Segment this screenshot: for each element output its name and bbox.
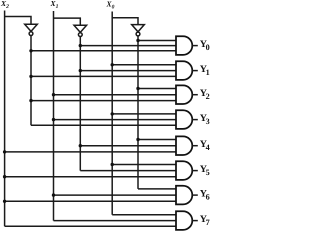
wire Y5 top input from X0 [112,164,176,166]
junction X0 to Y1 top [111,63,114,66]
inverter U2 (X1 complement) [74,25,87,36]
wire X2 branch to inverter [5,17,31,25]
wire Y2 middle input from X1 [54,94,177,96]
wire X2 vertical bus [4,11,6,227]
and-gate U10 output Y6 [176,186,192,205]
wire X1 branch to inverter [54,18,81,25]
junction X1 to Y3 middle [52,118,55,121]
wire Y5 bottom input from X2 [5,176,176,178]
junction X0' to Y4 top [136,138,139,141]
wire Y0 bottom input from X2' [31,50,176,52]
wire Y4 bottom input from X2 [5,151,176,153]
wire Y0 output stub [192,45,198,47]
wire Y1 bottom input from X2' [31,75,176,77]
junction X1' to Y1 middle [79,69,82,72]
wire Y1 top input from X0 [112,64,176,66]
wire Y0 middle input from X1' [80,45,176,47]
junction X2' to Y1 bottom [29,75,32,78]
wire X0' vertical bus [137,36,139,189]
and-gate U9 output Y5 [176,161,192,180]
and-gate U8 output Y4 [176,136,192,155]
junction X1' to Y4 middle [79,144,82,147]
wire Y1 middle input from X1' [80,70,176,72]
wire Y5 output stub [192,170,198,172]
wire Y3 middle input from X1 [54,119,177,121]
wire X1' vertical bus [79,37,81,171]
wire Y4 top input from X0' [138,139,176,141]
junction X2 to Y6 bottom [3,200,6,203]
wire Y2 output stub [192,94,198,96]
inverter U1 (X2 complement) [25,24,38,35]
wire Y2 top input from X0' [138,88,176,90]
wire Y7 output stub [192,220,198,222]
wire Y6 output stub [192,194,198,196]
svg-text:5: 5 [206,168,210,177]
junction X1 to Y2 middle [52,93,55,96]
svg-text:3: 3 [206,117,210,126]
wire X0 vertical bus [111,12,113,215]
wire Y6 bottom input from X2 [5,200,176,202]
junction X0 to Y5 top [111,163,114,166]
junction X2 to Y4 bottom [3,150,6,153]
and-gate U6 output Y2 [176,85,192,104]
wire X2' vertical bus [30,36,32,126]
wire Y7 middle input from X1 [54,220,177,222]
inverter U3 (X0 complement) [132,25,145,36]
and-gate U7 output Y3 [176,110,192,129]
junction X1' to Y0 middle [79,44,82,47]
wire Y6 top input from X0' [138,188,176,190]
svg-text:6: 6 [206,192,210,201]
and-gate U4 output Y0 [176,36,192,55]
and-gate U5 output Y1 [176,61,192,80]
wire Y7 bottom input from X2 [5,225,176,227]
junction X0 to Y3 top [111,112,114,115]
wire Y7 top input from X0 [112,214,176,216]
wire Y4 output stub [192,145,198,147]
svg-text:0: 0 [206,43,210,52]
svg-text:4: 4 [206,143,210,152]
and-gate U11 output Y7 [176,211,192,230]
wire X0 branch to inverter [112,18,138,25]
junction X0' to Y2 top [136,87,139,90]
wire Y2 bottom input from X2' [31,100,176,102]
svg-text:X0: X0 [106,0,115,11]
wire Y0 top input from X0' [138,40,176,42]
junction X0' to Y0 top [136,39,139,42]
svg-text:X1: X1 [50,0,59,10]
wire Y3 bottom input from X2' [31,124,176,126]
svg-text:7: 7 [206,218,210,227]
wire Y3 output stub [192,119,198,121]
wire Y6 middle input from X1 [54,194,177,196]
junction X2' to Y2 bottom [29,99,32,102]
junction X2 to Y5 bottom [3,175,6,178]
svg-text:X2: X2 [0,0,9,10]
wire Y1 output stub [192,70,198,72]
junction X2' to Y0 bottom [29,49,32,52]
svg-text:1: 1 [206,68,210,77]
junction X1 to Y6 middle [52,193,55,196]
svg-text:2: 2 [206,92,210,101]
wire Y5 middle input from X1' [80,170,176,172]
wire Y3 top input from X0 [112,113,176,115]
wire Y4 middle input from X1' [80,145,176,147]
wire X1 vertical bus [53,11,55,221]
